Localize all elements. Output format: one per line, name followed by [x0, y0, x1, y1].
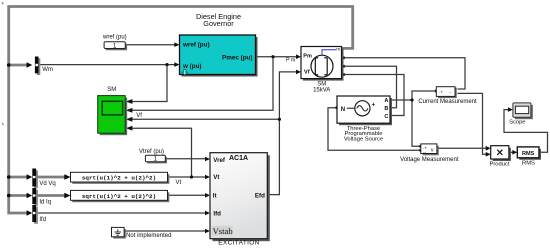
svg-text:wref (pu): wref (pu) [182, 42, 210, 49]
svg-text:Id Iq: Id Iq [39, 200, 51, 206]
svg-text:+: + [372, 102, 376, 108]
svg-text:It: It [213, 192, 217, 199]
svg-text:sqrt(u(1)^2 + u(2)^2): sqrt(u(1)^2 + u(2)^2) [82, 193, 156, 200]
svg-text:Efd: Efd [255, 192, 265, 199]
svg-text:v: v [431, 148, 434, 154]
svg-text:Governor: Governor [203, 19, 234, 28]
svg-text:w (pu): w (pu) [182, 63, 202, 70]
svg-text:Vstab: Vstab [213, 226, 233, 236]
svg-text:Vd Vq: Vd Vq [39, 181, 55, 187]
svg-text:RMS: RMS [522, 160, 535, 166]
svg-text:·-: ·- [449, 89, 453, 94]
svg-text:A: A [384, 98, 388, 104]
svg-text:Not implemented: Not implemented [126, 233, 171, 239]
svg-text:Product: Product [490, 161, 510, 167]
svg-text:AC1A: AC1A [229, 155, 248, 162]
svg-text:EXCITATION: EXCITATION [218, 240, 259, 247]
svg-text:Vt: Vt [176, 180, 182, 186]
svg-text:·-: ·- [423, 150, 427, 155]
svg-text:·+: ·+ [439, 89, 444, 94]
svg-text:SM: SM [107, 87, 116, 93]
svg-text:P m: P m [286, 57, 296, 63]
svg-text:wref (pu): wref (pu) [102, 34, 127, 40]
svg-text:15kVA: 15kVA [313, 88, 330, 94]
svg-text:m: m [336, 47, 340, 52]
svg-text:C: C [384, 114, 388, 120]
svg-text:Voltage Source: Voltage Source [344, 136, 383, 142]
svg-text:RMS: RMS [522, 151, 535, 157]
svg-text:Pmec (pu): Pmec (pu) [222, 54, 252, 61]
svg-text:B: B [384, 106, 388, 112]
svg-text:Vtref (pu): Vtref (pu) [139, 149, 164, 155]
svg-text:Vf: Vf [136, 113, 142, 119]
svg-text:N: N [341, 107, 345, 113]
svg-text:Scope: Scope [509, 120, 525, 126]
svg-text:Ifd: Ifd [39, 217, 46, 223]
svg-text:Vt: Vt [213, 174, 219, 181]
svg-text:Vf: Vf [304, 69, 310, 75]
svg-text:Wm: Wm [42, 67, 53, 73]
svg-text:Current Measurement: Current Measurement [418, 99, 477, 105]
svg-text:Ifd: Ifd [213, 210, 221, 217]
svg-text:Voltage Measurement: Voltage Measurement [400, 157, 459, 163]
svg-text:Pm: Pm [303, 54, 312, 60]
svg-text:Vref: Vref [213, 157, 226, 164]
svg-text:sqrt(u(1)^2 + u(2)^2): sqrt(u(1)^2 + u(2)^2) [82, 175, 156, 182]
